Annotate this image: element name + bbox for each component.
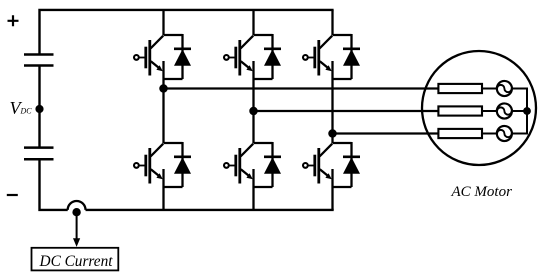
svg-text:AC Motor: AC Motor (451, 184, 513, 200)
svg-text:DC Current: DC Current (39, 253, 114, 270)
